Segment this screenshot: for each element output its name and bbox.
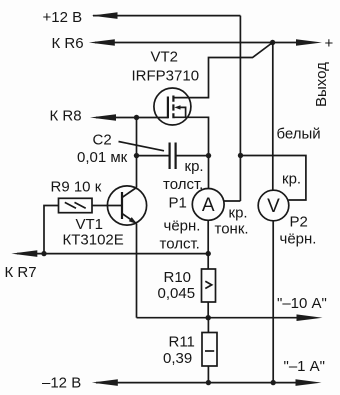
R11 power mark (I rotated)	[205, 350, 214, 352]
wire R10 bottom	[207, 302, 209, 318]
node R11 bottom rail	[206, 380, 211, 385]
VT1 collector	[122, 188, 137, 198]
wire К R8 to gate	[96, 117, 168, 119]
wire +12V rail	[93, 15, 240, 17]
arrowhead К R7 left	[11, 250, 37, 257]
svg-text:толст.: толст.	[163, 176, 203, 193]
wire R11 bottom	[207, 366, 209, 383]
wire VT1 emitter down	[136, 224, 138, 318]
resistor R11 box	[202, 333, 217, 367]
wire branch to voltmeter red lead	[241, 156, 306, 201]
capacitor C2 right wire	[176, 155, 209, 157]
svg-text:0,01 мк: 0,01 мк	[77, 149, 128, 166]
svg-text:кр.: кр.	[229, 204, 248, 221]
svg-text:R9 10 к: R9 10 к	[51, 179, 102, 196]
svg-text:A: A	[202, 195, 215, 216]
wire stub to ammeter right terminal	[224, 200, 240, 202]
VT1 emitter	[122, 214, 137, 224]
svg-text:P2: P2	[290, 213, 308, 230]
R10 power mark (V rotated)	[205, 281, 211, 288]
VT2 body arrow	[179, 107, 186, 117]
wire R9 left to branch	[44, 206, 59, 254]
svg-text:–12 В: –12 В	[42, 374, 81, 391]
svg-text:чёрн.: чёрн.	[164, 217, 201, 234]
svg-text:К R8: К R8	[50, 108, 82, 125]
node R10 bottom	[206, 315, 211, 320]
node R9 branch	[41, 251, 46, 256]
leader line C2	[119, 142, 165, 151]
R9 power marks	[65, 202, 86, 208]
svg-text:C2: C2	[93, 132, 112, 149]
svg-text:КТ3102Е: КТ3102Е	[63, 231, 124, 248]
meter P1 circle	[192, 189, 224, 221]
arrowhead -12V left	[92, 379, 118, 386]
svg-text:V: V	[267, 196, 280, 217]
resistor R10 box	[202, 269, 216, 302]
svg-text:P1: P1	[169, 195, 187, 212]
svg-text:R11: R11	[169, 333, 195, 350]
arrowhead К R6 left	[89, 39, 115, 46]
wire -10A sense line	[137, 317, 298, 319]
node К R7 / ammeter low side	[206, 251, 211, 256]
svg-text:VT1: VT1	[76, 216, 104, 233]
VT2 channel segments	[172, 96, 174, 119]
wire К R7 line	[17, 253, 208, 255]
svg-text:"–10 А": "–10 А"	[277, 295, 327, 312]
node on +12V drop	[238, 153, 243, 158]
node C2 right	[206, 153, 211, 158]
meter P2 circle	[258, 190, 289, 221]
svg-text:IRFP3710: IRFP3710	[132, 68, 200, 85]
wire R9 right to VT1 base	[92, 205, 122, 207]
wire ammeter bottom to R10	[207, 220, 209, 269]
VT2 gate bar	[167, 97, 169, 119]
node К R8 branch	[134, 115, 139, 120]
capacitor C2 left wire	[137, 155, 170, 157]
svg-text:К R7: К R7	[5, 264, 37, 281]
wire vertical К R8 / C2 / VT1 collector	[136, 118, 138, 188]
svg-text:VT2: VT2	[151, 49, 179, 66]
svg-text:R10: R10	[164, 269, 192, 286]
svg-text:0,39: 0,39	[163, 350, 192, 367]
wire white lead (белый) from output down to voltmeter	[272, 43, 274, 191]
arrowhead output right	[296, 39, 322, 46]
transistor VT1 body circle	[107, 186, 146, 225]
VT1 base bar	[121, 192, 123, 219]
node C2 left	[134, 153, 139, 158]
svg-text:кр.: кр.	[282, 170, 301, 187]
wire bottom -12V / -1A rail	[96, 382, 296, 384]
svg-text:тонк.: тонк.	[215, 220, 249, 237]
wire К R6 rail to output	[95, 42, 297, 44]
wire voltmeter bottom to -1A rail	[272, 221, 274, 383]
svg-text:0,045: 0,045	[158, 285, 196, 302]
arrowhead +12V left	[92, 12, 118, 19]
transistor VT2 body circle	[154, 88, 191, 125]
svg-text:+12 В: +12 В	[43, 9, 83, 26]
arrowhead -1A right	[296, 379, 322, 386]
node output junction	[270, 40, 275, 45]
svg-text:"–1 А": "–1 А"	[284, 358, 326, 375]
arrowhead К R8 left	[90, 114, 116, 121]
svg-text:толст.: толст.	[160, 235, 200, 252]
svg-text:+: +	[325, 35, 334, 52]
svg-text:белый: белый	[277, 126, 321, 143]
svg-text:К R6: К R6	[52, 35, 84, 52]
node voltmeter bottom rail	[271, 380, 276, 385]
svg-text:Выход: Выход	[313, 62, 330, 107]
wire R10 to R11	[207, 318, 209, 333]
arrowhead -10A right	[297, 314, 323, 321]
wire VT2 drain up to output junction	[174, 43, 273, 98]
wire VT2 source down to ammeter	[174, 117, 209, 188]
capacitor C2 plates	[170, 143, 176, 170]
wire +12V vertical drop	[239, 16, 241, 201]
svg-text:чёрн.: чёрн.	[280, 230, 317, 247]
resistor R9 box	[59, 198, 93, 212]
svg-text:кр.: кр.	[185, 158, 204, 175]
